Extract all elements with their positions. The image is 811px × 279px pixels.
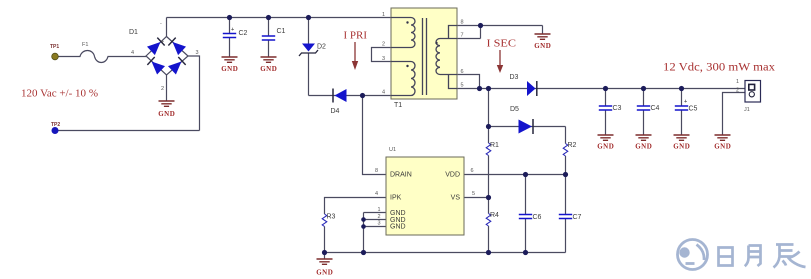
svg-text:8: 8 [461, 20, 464, 26]
svg-text:C6: C6 [533, 214, 542, 221]
svg-text:U1: U1 [389, 147, 396, 153]
svg-text:GND: GND [158, 110, 175, 118]
svg-text:4: 4 [131, 50, 134, 56]
svg-text:1: 1 [736, 79, 739, 85]
svg-text:5: 5 [472, 191, 475, 197]
svg-text:C7: C7 [573, 214, 582, 221]
svg-text:2: 2 [161, 86, 164, 92]
svg-text:5: 5 [461, 83, 464, 89]
svg-text:1: 1 [378, 207, 381, 213]
svg-text:4: 4 [375, 191, 378, 197]
svg-text:6: 6 [461, 69, 464, 75]
svg-text:D2: D2 [317, 44, 326, 51]
svg-text:R4: R4 [490, 212, 499, 219]
svg-text:GND: GND [316, 269, 333, 277]
svg-text:I SEC: I SEC [487, 39, 517, 50]
svg-text:C3: C3 [613, 105, 622, 112]
svg-text:C1: C1 [277, 28, 286, 35]
svg-text:R1: R1 [490, 142, 499, 149]
svg-text:GND: GND [221, 65, 238, 73]
svg-text:GND: GND [635, 143, 652, 151]
svg-text:4: 4 [382, 90, 385, 96]
svg-text:GND: GND [534, 42, 551, 50]
svg-text:GND: GND [260, 65, 277, 73]
svg-text:IPK: IPK [390, 195, 402, 202]
svg-text:+: + [231, 27, 234, 33]
svg-text:C5: C5 [689, 106, 698, 113]
svg-text:6: 6 [471, 168, 474, 174]
svg-text:VS: VS [451, 195, 461, 202]
svg-text:DRAIN: DRAIN [390, 172, 412, 179]
svg-text:3: 3 [378, 221, 381, 227]
svg-text:TP2: TP2 [51, 122, 60, 128]
svg-text:J1: J1 [744, 107, 750, 113]
svg-text:1: 1 [382, 12, 385, 18]
svg-text:3: 3 [196, 50, 199, 56]
svg-text:12 Vdc, 300 mW max: 12 Vdc, 300 mW max [663, 62, 775, 74]
svg-text:2: 2 [736, 88, 739, 94]
svg-text:7: 7 [461, 33, 464, 39]
svg-text:I PRI: I PRI [344, 31, 368, 42]
svg-text:D1: D1 [129, 29, 138, 36]
svg-text:-: - [160, 21, 162, 27]
svg-text:R3: R3 [327, 214, 336, 221]
svg-text:VDD: VDD [445, 172, 460, 179]
svg-text:2: 2 [378, 214, 381, 220]
svg-text:C4: C4 [651, 105, 660, 112]
svg-text:+: + [684, 99, 687, 105]
svg-text:8: 8 [375, 168, 378, 174]
svg-text:TP1: TP1 [50, 44, 59, 50]
svg-text:T1: T1 [394, 102, 402, 109]
svg-text:D5: D5 [510, 106, 519, 113]
svg-text:GND: GND [597, 143, 614, 151]
svg-text:GND: GND [673, 143, 690, 151]
svg-text:GND: GND [714, 143, 731, 151]
svg-text:C2: C2 [239, 30, 248, 37]
svg-text:+: + [161, 39, 164, 45]
svg-text:GND: GND [390, 210, 406, 217]
svg-text:F1: F1 [82, 42, 88, 48]
svg-text:120 Vac +/- 10 %: 120 Vac +/- 10 % [21, 89, 98, 100]
svg-text:D4: D4 [331, 108, 340, 115]
svg-text:3: 3 [382, 56, 385, 62]
svg-text:2: 2 [382, 42, 385, 48]
svg-text:D3: D3 [510, 74, 519, 81]
svg-text:R2: R2 [568, 142, 577, 149]
svg-text:GND: GND [390, 224, 406, 231]
